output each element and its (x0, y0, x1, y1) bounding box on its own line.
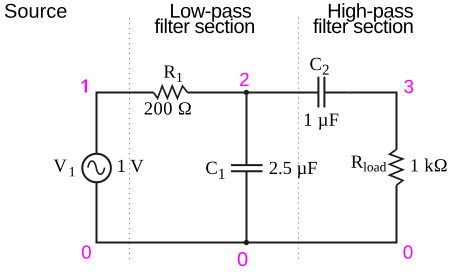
junction artifact dot on wire between C2 and node 3 (350, 91, 353, 94)
wire: node 1 corner (V1 top to R1 left) (97, 93, 154, 154)
label: High-pass (header line 1) (329, 3, 413, 22)
value label 200 Ω (145, 102, 191, 114)
label: filter section (high-pass, header line 2) (313, 19, 412, 34)
value label 2.5 µF (270, 162, 317, 178)
component label V1 (54, 160, 75, 177)
label: Source (5, 4, 67, 18)
node label 2 (240, 73, 249, 86)
node 2 junction dot (244, 90, 249, 95)
capacitor C1 plates (231, 165, 263, 171)
wire: node 2 down to C1 top plate (246, 93, 248, 166)
value label 1 V (118, 160, 143, 172)
component label R1 (164, 65, 182, 81)
capacitor C2 plates (318, 77, 324, 108)
label: Low-pass (header line 1) (171, 4, 251, 22)
component label C2 (310, 58, 328, 75)
value label 1 µF (305, 113, 338, 129)
wire: R1 right to C2 left plate (through node 2) (188, 92, 319, 94)
resistor Rload zigzag (390, 150, 403, 186)
voltage source V1 sine wave (88, 161, 105, 174)
wire: Rload bottom to bottom-right corner (247, 185, 397, 242)
node label 3 (404, 80, 413, 93)
value label 1 kΩ (411, 159, 446, 172)
component label Rload (351, 156, 386, 172)
section divider dotted line (Source | Low-pass) (129, 18, 131, 263)
wire: C2 right to node 3 corner down to Rload (324, 93, 396, 150)
node label 0 (bottom left) (82, 245, 91, 258)
node label 0 (bottom middle) (238, 252, 248, 266)
node label 1 (82, 79, 88, 92)
section divider dotted line (Low-pass | High-pass) (298, 18, 300, 263)
wire: C1 bottom plate down to bottom wire (246, 171, 248, 242)
wire: V1 bottom to bottom-left corner to bottom node 0 (97, 182, 247, 242)
label: filter section (low-pass, header line 2) (155, 19, 254, 34)
voltage source V1 circle (82, 154, 111, 183)
resistor R1 zigzag (154, 86, 188, 98)
node label 0 (bottom right) (403, 245, 412, 258)
bottom node 0 junction dot (244, 240, 249, 245)
component label C1 (206, 162, 224, 179)
